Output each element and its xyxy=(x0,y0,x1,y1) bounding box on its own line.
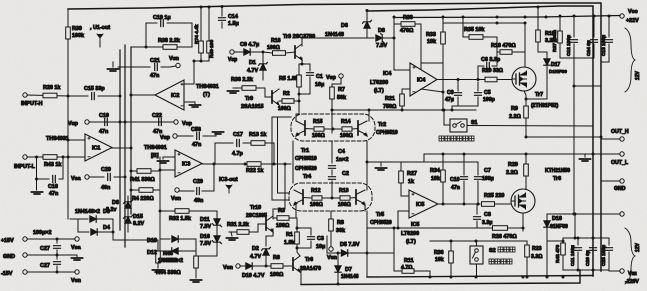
terminal INPUT-H xyxy=(23,93,27,97)
op-amp IC5 xyxy=(409,190,438,218)
wire d3 d4 join xyxy=(112,219,114,232)
wire caps bottom join xyxy=(560,57,594,59)
wire ic4 fb to r33 column xyxy=(421,89,443,92)
op-amp IC2 xyxy=(155,80,184,110)
wire c1 bottom join xyxy=(299,93,310,95)
wire d17 to source node xyxy=(526,98,547,100)
op-amp IC3 xyxy=(175,150,202,177)
resistor R40 100 xyxy=(208,6,210,42)
wire zener stack xyxy=(127,196,129,202)
diode D3 xyxy=(70,218,88,220)
wire R74/R40 bottom join xyxy=(194,60,209,62)
capacitor C12 100u xyxy=(573,16,575,37)
terminal Vsp r7 xyxy=(339,74,343,78)
resistor R7 56k xyxy=(330,87,335,99)
node r7 bottom xyxy=(331,109,334,112)
wire ic4-out bus y110 xyxy=(332,109,476,111)
mosfet Tr6 KTH21N50 xyxy=(511,189,535,213)
wire ic5 +in xyxy=(400,192,402,196)
resistor R26 470 xyxy=(493,226,508,231)
wire y162 link xyxy=(367,161,478,163)
wire left emitter link xyxy=(292,141,294,183)
wire vertical bus 3 xyxy=(130,47,132,214)
capacitor C10b xyxy=(463,154,465,175)
wire r33 column down xyxy=(442,63,444,110)
diode D17 D1NF60 xyxy=(544,59,550,65)
wire left vertical to D3 xyxy=(67,140,69,219)
node input-l a xyxy=(35,156,38,159)
wire drive vertical a xyxy=(272,117,291,200)
ground supply xyxy=(72,258,83,260)
diode D18 01NF60 xyxy=(544,221,550,227)
transistor package Tr1 Tr2 xyxy=(291,114,375,141)
ground R44 xyxy=(191,280,202,282)
transistor Tr4 xyxy=(302,190,304,204)
transistor package Tr4 Tr5 xyxy=(289,183,372,211)
wire ic4 output row xyxy=(437,79,486,81)
wire bottom rail 1 xyxy=(367,276,593,278)
terminal OUT_L xyxy=(620,152,624,156)
diode D13 xyxy=(160,238,170,240)
wire package1 internal xyxy=(305,128,314,131)
wire -15V row xyxy=(27,271,75,273)
node bottom rail junctions xyxy=(429,276,432,279)
wire IC2 output xyxy=(131,94,155,96)
node input-l b xyxy=(62,156,65,159)
node vsp crossings xyxy=(119,121,122,124)
wire vertical bus 2 xyxy=(124,45,126,247)
wire right emitter link xyxy=(366,141,368,190)
wire tr10 collector xyxy=(273,209,285,219)
switch S1 xyxy=(450,119,467,132)
wire emitter node up xyxy=(331,110,333,133)
capacitor C9 coupling xyxy=(234,51,243,53)
terminal Vsn r8 xyxy=(329,247,333,251)
wire x575 drop xyxy=(574,214,576,238)
wire third rail to Vcc terminal xyxy=(394,16,620,18)
capacitor C19 1u xyxy=(146,22,157,24)
diode D6 xyxy=(364,22,370,28)
ground C21 xyxy=(118,66,131,68)
wire package2 internal xyxy=(303,197,312,200)
ground C16 xyxy=(32,192,43,194)
transistor Tr2 xyxy=(357,121,359,135)
resistor R43 1k xyxy=(43,155,57,160)
wire join to IC2 +in xyxy=(184,61,194,84)
capacitor C11 100u xyxy=(577,238,579,245)
terminal GND right xyxy=(620,179,624,183)
resistor R27 1k xyxy=(399,171,404,183)
wire tr3 collector to D6 row xyxy=(302,38,374,46)
wire c13 bottom xyxy=(608,58,610,62)
terminal Vsp right xyxy=(174,120,178,124)
wire sense stub y86 xyxy=(574,85,601,87)
wire vsp row xyxy=(89,121,173,123)
wire c6 left drop xyxy=(477,66,479,80)
diode D7 1N4148 xyxy=(335,266,341,272)
resistor R41 330 xyxy=(131,170,160,172)
wire y23 link xyxy=(443,22,525,24)
mosfet Tr7 xyxy=(512,67,536,91)
wire d6 branch xyxy=(366,11,368,39)
label S1 protection switch xyxy=(439,136,444,141)
ground R31 xyxy=(227,238,238,240)
resistor R45 3.3k xyxy=(113,232,158,251)
wire out row y214 xyxy=(547,213,620,215)
wire vertical bus 1 xyxy=(119,50,121,230)
diode D12 xyxy=(160,250,170,252)
wire IC1 +in xyxy=(68,96,85,140)
wire low-side bus y228 xyxy=(367,227,470,229)
terminal Vsn supply xyxy=(75,270,79,274)
transistor Tr10 xyxy=(265,218,267,230)
node y110 junctions xyxy=(368,109,371,112)
wire tr10 base xyxy=(249,224,266,232)
wire d8 to rail3 xyxy=(393,17,395,38)
wire tr3 emitter xyxy=(301,58,303,64)
capacitor C27a xyxy=(56,238,59,241)
capacitor C27b xyxy=(56,255,58,259)
wire ic5 output xyxy=(438,203,480,205)
node d8 right xyxy=(393,37,396,40)
ground IC3 +in xyxy=(158,161,169,163)
wire r23 bottom xyxy=(526,270,528,277)
resistor R37 430 xyxy=(558,31,563,43)
node input junction xyxy=(67,95,70,98)
transistor Tr1 xyxy=(304,121,306,135)
node d5 row xyxy=(366,252,369,255)
wire y228 drop x394 xyxy=(393,228,395,253)
wire row y241 xyxy=(430,240,527,242)
wire IC3 +in xyxy=(163,156,175,158)
node y154 junctions xyxy=(442,153,445,156)
wire input-l row xyxy=(27,156,85,158)
diode D4 xyxy=(78,231,89,233)
transistor Tr5 xyxy=(355,190,357,204)
wire IC2 -in ground xyxy=(184,101,195,103)
terminal Vcc xyxy=(620,14,624,18)
wire caps bottom link xyxy=(452,105,478,107)
wire tr4 emitter exit xyxy=(295,204,297,218)
wire +15V row xyxy=(27,238,75,240)
node loop left xyxy=(145,46,148,49)
ground out row xyxy=(580,159,591,161)
terminal Vsa supply xyxy=(75,237,79,241)
ground C56 xyxy=(213,132,224,134)
wire tr7 output row xyxy=(526,136,601,138)
diode D16 7.5V xyxy=(214,236,220,242)
wire tr10 emitter xyxy=(266,229,273,246)
wire sense line x574 xyxy=(573,58,575,214)
wire d13 d12 join xyxy=(195,239,197,256)
wire tr5 collector drop xyxy=(364,204,366,211)
resistor R32 1.5k xyxy=(160,210,217,212)
wire mid vertical xyxy=(159,157,161,248)
capacitor C15 33p xyxy=(68,95,88,97)
node rail3 junctions xyxy=(442,16,445,19)
wire r35 feed xyxy=(462,17,464,37)
resistor R22 1k xyxy=(247,162,261,167)
wire r35 to r18 xyxy=(496,37,498,66)
ground R36 xyxy=(228,91,239,93)
node tr7 output xyxy=(525,136,528,139)
wire gnd row xyxy=(27,254,75,256)
wire s2 leads xyxy=(476,241,478,246)
wire ic4 +in xyxy=(394,38,410,70)
terminal Vsa mid xyxy=(85,175,89,179)
diode D15 8.2V xyxy=(125,217,131,223)
capacitor C26 6u xyxy=(592,238,594,245)
wire c17 left drop xyxy=(214,143,216,164)
terminal Vsn bottom xyxy=(236,264,240,268)
wire drive vertical b xyxy=(277,118,279,164)
wire tr10 collector drop xyxy=(284,164,286,209)
diode D11 7.5V xyxy=(214,219,220,225)
ground center xyxy=(376,168,387,170)
resistor R38 2.2k xyxy=(146,46,192,48)
wire bottom rail 2 xyxy=(301,270,580,285)
wire caps top row xyxy=(563,237,609,239)
node bus1 input xyxy=(119,95,122,98)
wire tr6 source down xyxy=(522,213,524,228)
label S2 protection switch xyxy=(498,247,503,252)
capacitor C14 1.5p xyxy=(221,6,223,16)
wire r42 top xyxy=(547,240,563,242)
wire loop to bus xyxy=(131,46,146,48)
resistor R28 1k xyxy=(27,95,68,96)
wire tr6 out right xyxy=(522,228,524,231)
node c9 d1 xyxy=(262,51,265,54)
resistor R8 36k xyxy=(329,219,334,231)
brace 12V top xyxy=(625,28,635,92)
brace 12V bottom xyxy=(625,228,635,284)
resistor R42 470 xyxy=(561,243,566,255)
wire second rail xyxy=(367,6,593,276)
terminal INPUT-L xyxy=(23,155,27,159)
node IC3 out a xyxy=(213,163,216,166)
wire IC1 output xyxy=(112,147,131,149)
capacitor C16 47n xyxy=(37,157,50,179)
paper noise xyxy=(0,0,1,1)
wire tr1 collector exit xyxy=(295,114,297,121)
capacitor C13 100u xyxy=(608,16,610,37)
wire r1 c3 loop xyxy=(297,227,311,229)
op-amp IC1 xyxy=(85,134,112,161)
ground R45 xyxy=(153,270,164,272)
capacitor C24 6u xyxy=(593,16,595,37)
resistor R74 4.4k xyxy=(200,6,202,42)
op-amp IC4 xyxy=(410,63,437,96)
node rail2 junction xyxy=(337,283,340,286)
diode D8 8.2V xyxy=(125,202,131,208)
wire vee link xyxy=(609,270,620,272)
wire IC2 +in stub xyxy=(184,83,194,85)
resistor R39 100k xyxy=(66,27,71,39)
capacitor C23 100u xyxy=(608,238,610,245)
wire caps bottom row xyxy=(563,269,609,271)
wire s1 leads xyxy=(443,110,445,125)
wire IC3 output xyxy=(201,163,291,165)
wire tr6p collector link xyxy=(297,248,300,256)
wire ic5 -in feedback xyxy=(398,211,409,228)
wire C19 feedback loop xyxy=(145,23,147,47)
wire top rail Vcc xyxy=(68,3,601,271)
terminal VEE xyxy=(620,269,624,273)
resistor R23 3.3 xyxy=(525,245,530,257)
node IC3 out b xyxy=(244,163,247,166)
wire left drop xyxy=(67,9,69,96)
terminal Vsp c9 xyxy=(230,50,234,54)
wire tr6 emitter to rail xyxy=(300,271,302,284)
wire tr7 source xyxy=(524,91,526,106)
switch S2 xyxy=(470,246,483,264)
wire out row y154 xyxy=(424,153,620,155)
resistor R44 330 xyxy=(194,256,199,268)
wire tr7 drain xyxy=(524,23,526,67)
wire tr2 collector exit xyxy=(368,110,370,121)
wire IC3 -in xyxy=(160,169,175,171)
diode D10 xyxy=(240,265,245,267)
diode D5 xyxy=(327,236,341,253)
capacitor C3 10u xyxy=(310,228,312,235)
wire d16 bottom join xyxy=(196,248,217,256)
resistor R19 3.3 xyxy=(536,30,541,42)
resistor R4 220 xyxy=(131,189,160,191)
